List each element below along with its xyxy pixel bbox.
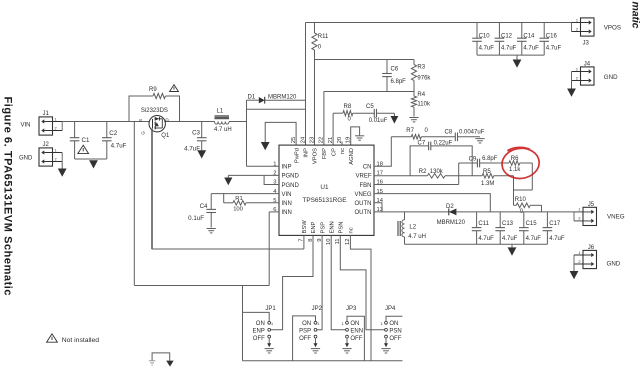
svg-text:2: 2 <box>55 157 57 161</box>
svg-text:C5: C5 <box>366 104 374 110</box>
svg-text:VNEG: VNEG <box>607 214 625 221</box>
svg-text:C17: C17 <box>549 221 561 227</box>
svg-text:C9: C9 <box>469 156 477 162</box>
svg-text:matic: matic <box>630 2 640 29</box>
svg-text:nc: nc <box>340 148 346 154</box>
svg-text:J4: J4 <box>584 61 591 67</box>
svg-text:Q1: Q1 <box>161 133 170 139</box>
svg-text:C6: C6 <box>391 67 399 73</box>
svg-text:ON: ON <box>350 321 359 327</box>
svg-text:S: S <box>138 119 143 122</box>
svg-text:TPS65131RGE: TPS65131RGE <box>302 197 346 204</box>
svg-text:J6: J6 <box>588 245 595 251</box>
svg-text:JP3: JP3 <box>346 306 357 312</box>
svg-text:GND: GND <box>607 260 621 267</box>
svg-text:6.8pF: 6.8pF <box>391 79 407 85</box>
svg-text:1: 1 <box>381 322 383 326</box>
svg-text:OFF: OFF <box>253 336 265 342</box>
svg-text:R11: R11 <box>318 34 329 40</box>
svg-text:C7: C7 <box>418 140 426 146</box>
svg-text:Si2323DS: Si2323DS <box>141 108 168 114</box>
svg-text:C15: C15 <box>526 221 538 227</box>
svg-text:R6: R6 <box>511 156 519 162</box>
svg-text:J1: J1 <box>43 111 50 117</box>
svg-text:C13: C13 <box>502 221 514 227</box>
svg-text:4.7uF: 4.7uF <box>184 145 200 152</box>
svg-text:nc: nc <box>349 227 355 233</box>
svg-text:4.7 uH: 4.7 uH <box>214 127 232 133</box>
svg-text:J5: J5 <box>588 202 595 208</box>
svg-text:0.1uF: 0.1uF <box>188 215 204 222</box>
svg-text:C3: C3 <box>192 130 200 137</box>
svg-text:4.7uF: 4.7uF <box>111 143 127 150</box>
svg-text:L1: L1 <box>217 108 224 114</box>
svg-text:4.7uF: 4.7uF <box>478 236 494 242</box>
svg-text:4.7uF: 4.7uF <box>526 236 542 242</box>
svg-text:976k: 976k <box>417 76 431 82</box>
svg-text:2: 2 <box>576 27 578 31</box>
svg-text:R1: R1 <box>235 196 242 202</box>
svg-text:OFF: OFF <box>350 336 362 342</box>
svg-text:J2: J2 <box>43 142 50 148</box>
svg-text:0.01uF: 0.01uF <box>369 118 388 124</box>
svg-text:INN: INN <box>282 201 292 207</box>
svg-text:0.22uF: 0.22uF <box>434 140 453 146</box>
svg-text:24: 24 <box>300 136 306 143</box>
svg-text:PGND: PGND <box>282 183 300 189</box>
svg-text:1: 1 <box>55 148 57 152</box>
svg-text:1: 1 <box>317 322 319 326</box>
svg-text:R5: R5 <box>483 169 491 175</box>
svg-text:100: 100 <box>233 207 243 213</box>
svg-text:1: 1 <box>576 18 578 22</box>
svg-text:22: 22 <box>319 137 325 143</box>
svg-text:VPOS: VPOS <box>313 148 319 164</box>
svg-text:1: 1 <box>578 251 580 255</box>
svg-text:PSP: PSP <box>299 329 311 335</box>
svg-text:R4: R4 <box>417 92 425 98</box>
svg-text:JP2: JP2 <box>312 306 323 312</box>
svg-text:4.7uF: 4.7uF <box>549 236 565 242</box>
svg-text:25: 25 <box>291 137 297 143</box>
svg-text:4.7uF: 4.7uF <box>546 46 562 52</box>
svg-text:GND: GND <box>604 74 618 81</box>
svg-text:GND: GND <box>19 155 33 161</box>
svg-text:INN: INN <box>282 210 292 216</box>
svg-text:AGND: AGND <box>349 148 355 165</box>
svg-text:19: 19 <box>346 137 352 143</box>
svg-text:G: G <box>141 131 146 135</box>
svg-text:VPOS: VPOS <box>604 25 621 32</box>
svg-text:1: 1 <box>271 322 273 326</box>
svg-text:4.7uF: 4.7uF <box>479 46 495 52</box>
svg-text:4.7uF: 4.7uF <box>502 236 518 242</box>
svg-text:D: D <box>164 118 169 121</box>
svg-text:C16: C16 <box>546 33 558 39</box>
svg-text:ENP: ENP <box>252 329 264 335</box>
svg-text:C4: C4 <box>200 203 208 210</box>
svg-text:ON: ON <box>302 321 311 327</box>
svg-text:23: 23 <box>309 137 315 143</box>
svg-text:130k: 130k <box>430 169 444 175</box>
svg-text:1: 1 <box>578 208 580 212</box>
svg-text:INP: INP <box>304 148 310 158</box>
svg-text:2: 2 <box>576 76 578 80</box>
svg-text:ENN: ENN <box>329 221 335 233</box>
svg-text:C12: C12 <box>501 33 513 39</box>
svg-text:ON: ON <box>256 321 265 327</box>
svg-text:BSW: BSW <box>302 220 308 234</box>
svg-text:PSN: PSN <box>389 329 401 335</box>
svg-text:OUTN: OUTN <box>355 201 372 207</box>
svg-text:R7: R7 <box>406 128 414 134</box>
svg-text:1.1k: 1.1k <box>509 167 521 173</box>
svg-text:ON: ON <box>389 321 398 327</box>
svg-text:4.7uF: 4.7uF <box>501 46 517 52</box>
svg-text:VIN: VIN <box>282 192 292 198</box>
svg-text:C8: C8 <box>445 130 453 136</box>
svg-text:1.3M: 1.3M <box>481 181 494 187</box>
svg-text:CP: CP <box>331 148 337 156</box>
svg-text:R10: R10 <box>515 197 527 203</box>
svg-text:FBP: FBP <box>322 148 328 159</box>
svg-text:1: 1 <box>55 117 57 121</box>
svg-text:0.0047uF: 0.0047uF <box>459 130 485 136</box>
svg-text:2: 2 <box>578 260 580 264</box>
svg-text:C14: C14 <box>523 33 535 39</box>
svg-text:J3: J3 <box>583 40 590 46</box>
svg-text:OFF: OFF <box>299 336 311 342</box>
svg-text:Not installed: Not installed <box>62 337 100 344</box>
svg-text:ENP: ENP <box>311 221 317 233</box>
svg-text:L2: L2 <box>409 225 416 231</box>
svg-text:4.7 uH: 4.7 uH <box>408 234 426 240</box>
svg-text:R3: R3 <box>417 65 425 71</box>
svg-text:MBRM120: MBRM120 <box>268 94 297 100</box>
svg-text:VNEG: VNEG <box>354 192 371 198</box>
svg-text:R2: R2 <box>419 169 427 175</box>
svg-text:PSP: PSP <box>320 222 326 234</box>
svg-text:C10: C10 <box>479 33 491 39</box>
svg-text:21: 21 <box>328 137 334 143</box>
svg-text:C11: C11 <box>478 221 489 227</box>
svg-text:1: 1 <box>342 322 344 326</box>
svg-text:VIN: VIN <box>21 122 31 128</box>
svg-text:1: 1 <box>576 67 578 71</box>
svg-text:D1: D1 <box>248 94 256 100</box>
svg-text:PwPd: PwPd <box>294 148 300 163</box>
svg-text:4.7uF: 4.7uF <box>523 46 539 52</box>
svg-text:PGND: PGND <box>282 174 300 180</box>
svg-text:U1: U1 <box>320 184 329 191</box>
svg-text:2: 2 <box>55 126 57 130</box>
svg-text:MBRM120: MBRM120 <box>437 220 466 226</box>
svg-text:OFF: OFF <box>389 336 401 342</box>
svg-text:Figure 6. TPA65131EVM Schemati: Figure 6. TPA65131EVM Schematic <box>2 97 14 296</box>
svg-text:INP: INP <box>282 165 292 171</box>
svg-text:110k: 110k <box>417 102 431 108</box>
svg-text:ENN: ENN <box>350 329 363 335</box>
svg-text:R9: R9 <box>149 87 157 93</box>
svg-text:C2: C2 <box>109 130 117 137</box>
svg-text:R8: R8 <box>344 104 352 110</box>
svg-text:D2: D2 <box>446 204 454 210</box>
svg-text:CN: CN <box>363 165 372 171</box>
svg-text:FBN: FBN <box>360 183 372 189</box>
svg-text:JP1: JP1 <box>265 306 276 312</box>
svg-text:PSN: PSN <box>339 222 345 234</box>
svg-text:C1: C1 <box>82 137 90 144</box>
svg-text:OUTN: OUTN <box>355 210 372 216</box>
svg-text:6.8pF: 6.8pF <box>482 156 498 162</box>
svg-text:JP4: JP4 <box>385 306 396 312</box>
svg-text:VREF: VREF <box>355 174 371 180</box>
svg-text:2: 2 <box>578 217 580 221</box>
